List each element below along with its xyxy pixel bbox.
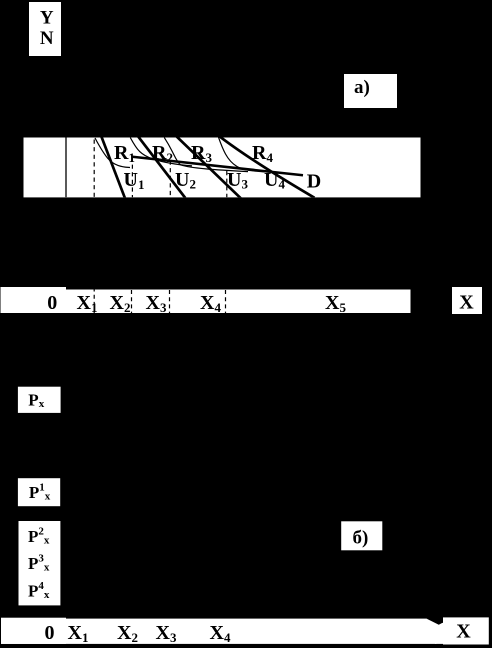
svg-text:N: N — [40, 28, 54, 49]
svg-text:0: 0 — [45, 622, 55, 644]
svg-text:D: D — [307, 170, 321, 192]
svg-text:a): a) — [354, 77, 370, 98]
svg-text:б): б) — [353, 528, 369, 549]
svg-text:X: X — [459, 292, 474, 314]
svg-text:0: 0 — [47, 292, 57, 314]
svg-text:Y: Y — [40, 8, 54, 29]
svg-text:X: X — [456, 621, 471, 643]
